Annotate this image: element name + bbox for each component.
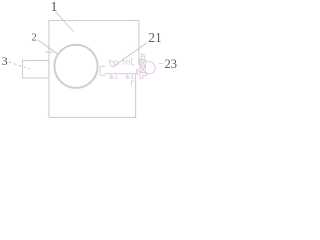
top bolt head O xyxy=(110,61,115,66)
wall flange xyxy=(137,68,138,75)
top nut c xyxy=(126,60,130,64)
inlet port 3 xyxy=(23,61,50,79)
top dot 2 xyxy=(113,66,114,67)
roller 2 xyxy=(54,45,97,88)
svg-text:21: 21 xyxy=(148,30,162,45)
support bracket xyxy=(131,81,134,85)
svg-text:1: 1 xyxy=(51,0,58,14)
leader 3 xyxy=(9,62,30,69)
gear block 21 xyxy=(140,60,145,73)
top bolt a xyxy=(108,60,111,62)
top stud b xyxy=(122,58,125,65)
leader 1 xyxy=(56,12,74,32)
bottom screw g xyxy=(126,74,130,79)
bottom screw f xyxy=(115,74,118,79)
screw shaft xyxy=(104,73,137,75)
svg-text:2: 2 xyxy=(31,32,36,43)
housing box 1 xyxy=(49,21,139,118)
svg-text:3: 3 xyxy=(2,54,8,68)
top stud of block xyxy=(140,54,146,59)
top bolt head O2 xyxy=(115,61,119,65)
svg-text:23: 23 xyxy=(165,57,178,71)
leader 23 xyxy=(159,62,164,64)
leader 21 xyxy=(114,43,147,66)
coupling claw xyxy=(100,66,105,75)
tick on left wall xyxy=(45,51,53,53)
handle loop 23 xyxy=(146,62,156,74)
bottom screw h xyxy=(131,74,134,79)
leader 2 xyxy=(37,40,57,54)
block step xyxy=(140,73,147,79)
bottom screw e xyxy=(110,74,114,79)
top bracket d xyxy=(132,58,135,65)
